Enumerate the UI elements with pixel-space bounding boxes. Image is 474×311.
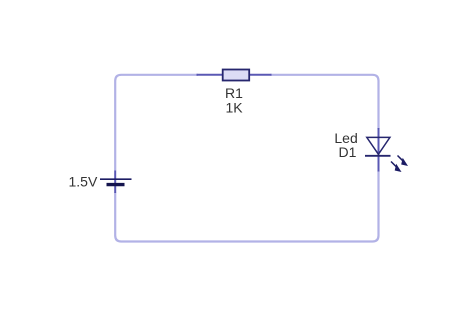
resistor R1 body bbox=[223, 70, 250, 81]
LED reference label D1 bbox=[339, 144, 357, 160]
svg-text:D1: D1 bbox=[339, 144, 357, 160]
battery B1 pin wire (vertical through cell) bbox=[114, 171, 116, 194]
LED D1 pin wire (vertical through diode) bbox=[378, 128, 380, 172]
LED D1 anode triangle bbox=[367, 137, 390, 154]
svg-text:1.5V: 1.5V bbox=[69, 174, 98, 190]
LED D1 light-emission arrow 2 (lower) bbox=[391, 162, 402, 173]
svg-text:1K: 1K bbox=[226, 100, 244, 116]
battery value label 1.5V bbox=[69, 174, 98, 190]
LED D1 light-emission arrow 1 (upper) bbox=[398, 156, 409, 167]
LED type label Led bbox=[334, 130, 357, 146]
wire from LED D1 cathode down, across bottom, and up to battery negative bbox=[115, 171, 378, 242]
resistor value label 1K bbox=[226, 100, 244, 116]
resistor R1 pin 2 (right lead) bbox=[249, 74, 272, 76]
battery B1 positive plate (long thin) bbox=[100, 178, 132, 180]
resistor reference label R1 bbox=[225, 85, 243, 101]
battery B1 negative plate (short thick) bbox=[107, 183, 125, 186]
wire from battery positive up and across to resistor R1 left pin bbox=[115, 75, 198, 171]
resistor R1 pin 1 (left lead) bbox=[197, 74, 224, 76]
LED D1 cathode bar bbox=[365, 155, 391, 157]
wire from resistor R1 right pin across and down to LED D1 anode bbox=[271, 75, 379, 129]
